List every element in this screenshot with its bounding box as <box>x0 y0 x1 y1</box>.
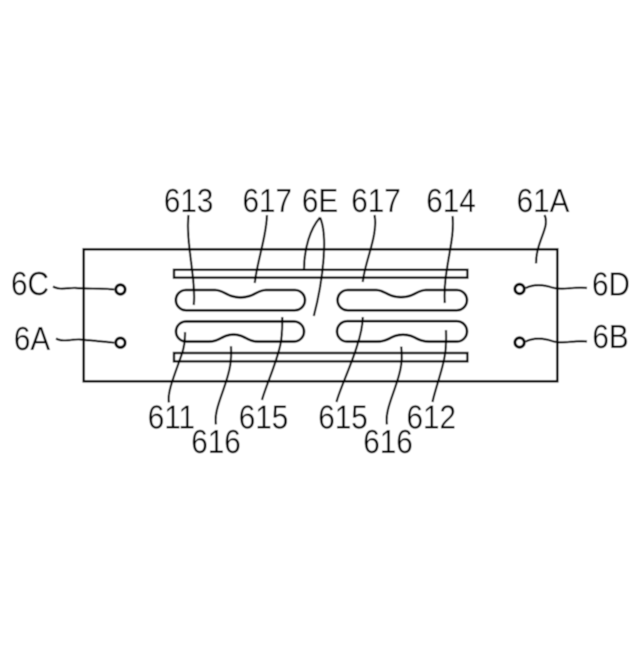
svg-text:6B: 6B <box>592 319 628 356</box>
svg-text:6A: 6A <box>14 321 50 358</box>
gauge element 614 (top-right bone) <box>338 290 467 310</box>
svg-text:611: 611 <box>148 399 195 436</box>
svg-text:615: 615 <box>239 399 289 436</box>
leader line 616 left <box>216 346 232 424</box>
terminal 6B (bottom-right circle) <box>515 338 524 347</box>
svg-text:617: 617 <box>242 183 292 220</box>
leader line 617 left <box>255 215 267 283</box>
base plate 61A (outer rectangle) <box>84 249 558 381</box>
wire 6A to terminal <box>56 339 114 343</box>
leader line 6E left branch <box>304 218 320 270</box>
svg-text:6C: 6C <box>11 266 49 303</box>
wire 6C to terminal <box>53 287 114 290</box>
svg-text:613: 613 <box>164 183 214 220</box>
leader line 617 right <box>363 215 375 282</box>
svg-text:6D: 6D <box>592 266 630 303</box>
wire 6B to terminal <box>526 339 587 343</box>
svg-text:614: 614 <box>426 183 476 220</box>
terminal 6C (top-left circle) <box>116 285 125 294</box>
svg-text:616: 616 <box>363 424 413 461</box>
terminal 6D (top-right circle) <box>515 284 524 293</box>
leader line 615 right <box>337 317 363 402</box>
leader line 611 <box>169 332 185 403</box>
svg-text:61A: 61A <box>517 183 570 220</box>
leader line 613 <box>188 215 194 305</box>
bottom electrode bar 617 <box>174 353 467 361</box>
leader line 614 <box>445 216 453 303</box>
gauge element 613 (top-left bone) <box>176 290 305 310</box>
svg-text:615: 615 <box>318 399 368 436</box>
wire 6D to terminal <box>526 285 587 289</box>
gauge element 611 (bottom-left bone) <box>176 321 304 341</box>
top electrode bar 617 <box>174 270 467 278</box>
svg-text:6E: 6E <box>302 183 338 220</box>
leader line 61A <box>536 215 546 264</box>
gauge element 612 (bottom-right bone) <box>337 321 467 341</box>
svg-text:617: 617 <box>351 183 401 220</box>
leader line 612 <box>433 330 447 402</box>
svg-text:612: 612 <box>407 399 457 436</box>
leader line 616 right <box>387 347 402 425</box>
leader line 6E right branch <box>314 218 324 317</box>
terminal 6A (bottom-left circle) <box>116 338 125 347</box>
leader line 615 left <box>262 317 282 400</box>
svg-text:616: 616 <box>191 424 241 461</box>
